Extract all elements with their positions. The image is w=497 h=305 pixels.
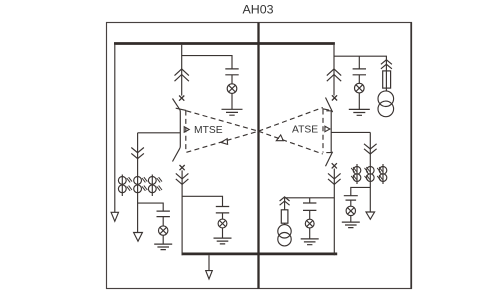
CT column D [351,164,361,184]
contact x ATSE bottom [332,163,337,168]
ATSE switch bracket [326,111,331,153]
wire: fuse F2 to transformer [284,223,286,224]
wire: metering PT branch [138,203,164,211]
wire: lamp P5 to ground [162,235,164,244]
arrow: bottom outgoing feeder [206,271,213,279]
wire: lamp P6 to ground [350,216,352,223]
CT column E [365,167,375,182]
arrow: right metering feeder out [366,212,375,219]
wire: right metering feeder vertical [369,132,371,212]
cabinet outer frame [107,23,412,289]
drawout contact (chevrons down) ATSE bottom [328,173,341,184]
wire: right inner branch [285,197,335,199]
transformer TR1 [378,91,394,117]
CT column C [148,175,162,197]
contact x right feeder top [332,95,337,100]
wire: lamp P1 to ground [231,93,233,109]
wire: ATSE output to metering [331,131,370,133]
wire: right PT branch [358,56,360,69]
ground G4 [301,239,319,245]
ATSE switch blade bottom [326,152,333,166]
drawout contact (small chevrons up) inner transformer [280,197,290,205]
cabinet frame right edge (thicker) [410,23,412,289]
svg-text:AH03: AH03 [243,3,274,17]
cabinet section divider [257,23,259,289]
arrow: metering feeder out [134,233,143,242]
contact x MTSE bottom [180,165,185,170]
drawout contact (chevrons down) right metering [364,144,377,154]
fuse F1 [383,71,391,88]
wire: ATSE bottom to tie bus [333,169,335,256]
MTSE actuator triangle [184,127,189,133]
ATSE switch blade top [326,98,333,113]
interlock dashed link upper-left [186,111,258,131]
wire: lamp P2 to ground [358,93,360,110]
wire: bottom outgoing feeder [208,255,210,270]
wire: left outgoing feeder drop [114,45,116,213]
lamp P5 [159,226,168,235]
wire: MTSE bottom to tie bus [181,170,183,255]
svg-text:MTSE: MTSE [194,125,223,136]
wire: right inner PT branch [309,198,311,203]
lamp P4 [305,219,314,228]
ground G2 [349,109,370,115]
contact x left feeder top [179,96,184,101]
drawout contact (chevrons up) right feeder [327,69,341,81]
drawout contact (chevrons down) MTSE bottom [176,173,189,184]
CT column A [118,175,132,197]
wire: C6 to lamp [350,200,352,206]
lamp P1 [227,84,237,94]
interlock dashed link lower-left [186,131,258,152]
wire: right incoming feeder from busbar [333,45,335,96]
wire: left inner PT branch [182,196,222,206]
ground G5 [154,244,172,250]
drawout contact (chevrons up) left feeder [175,69,189,81]
wire: left incoming feeder from busbar [181,45,183,96]
wire: C2 to lamp [358,75,360,83]
MTSE dashed pole [185,111,187,153]
ground G6 [342,222,360,228]
lamp P3 [218,219,227,228]
wire: MTSE output to metering [138,132,181,134]
ground G1 [222,109,243,115]
MTSE bracket top tick [176,108,187,110]
lamp P2 [355,83,365,93]
wire: inner transformer drop [284,198,286,210]
svg-text:ATSE: ATSE [292,125,318,136]
wire: right top distribution branch [334,56,386,91]
ground G3 [214,238,232,244]
transformer TR2 [278,225,291,246]
capacitor plates C5 [157,211,170,217]
capacitor plates C1 [225,69,238,75]
ATSE dashed pole [322,110,324,153]
bottom tie busbar [182,253,338,256]
capacitor plates C3 [216,207,229,213]
CT column F [377,164,387,184]
drawout contact (chevrons down) metering feeder [131,148,144,159]
arrow: left outgoing feeder [111,212,118,221]
wire: left PT branch [182,56,232,69]
top busbar [114,42,335,45]
wire: lamp P4 to ground [309,228,311,239]
MTSE switch bracket [173,99,181,162]
wire: C3 to lamp [222,213,224,219]
interlock dashed link lower-right [258,131,322,154]
ATSE actuator triangle [325,126,330,132]
lamp P6 [346,206,355,215]
wire: right metering PT branch [351,187,371,195]
fuse F2 [281,210,288,223]
capacitor plates C4 [303,203,316,210]
wire: metering feeder vertical [137,133,139,233]
capacitor plates C2 [353,69,366,75]
wire: lamp P3 to ground [222,228,224,238]
interlock arrow right [276,135,283,141]
interlock arrow left [221,139,228,145]
ATSE bracket top tick [322,109,329,110]
interlock dashed link upper-right [258,108,322,132]
drawout contact (small chevrons up) transformer tap [381,60,392,69]
capacitor plates C6 [344,196,358,200]
wire: C1 to lamp [231,75,233,84]
CT column B [134,177,148,193]
wire: C5 to lamp [162,217,164,226]
wire: C4 to lamp [309,211,311,220]
